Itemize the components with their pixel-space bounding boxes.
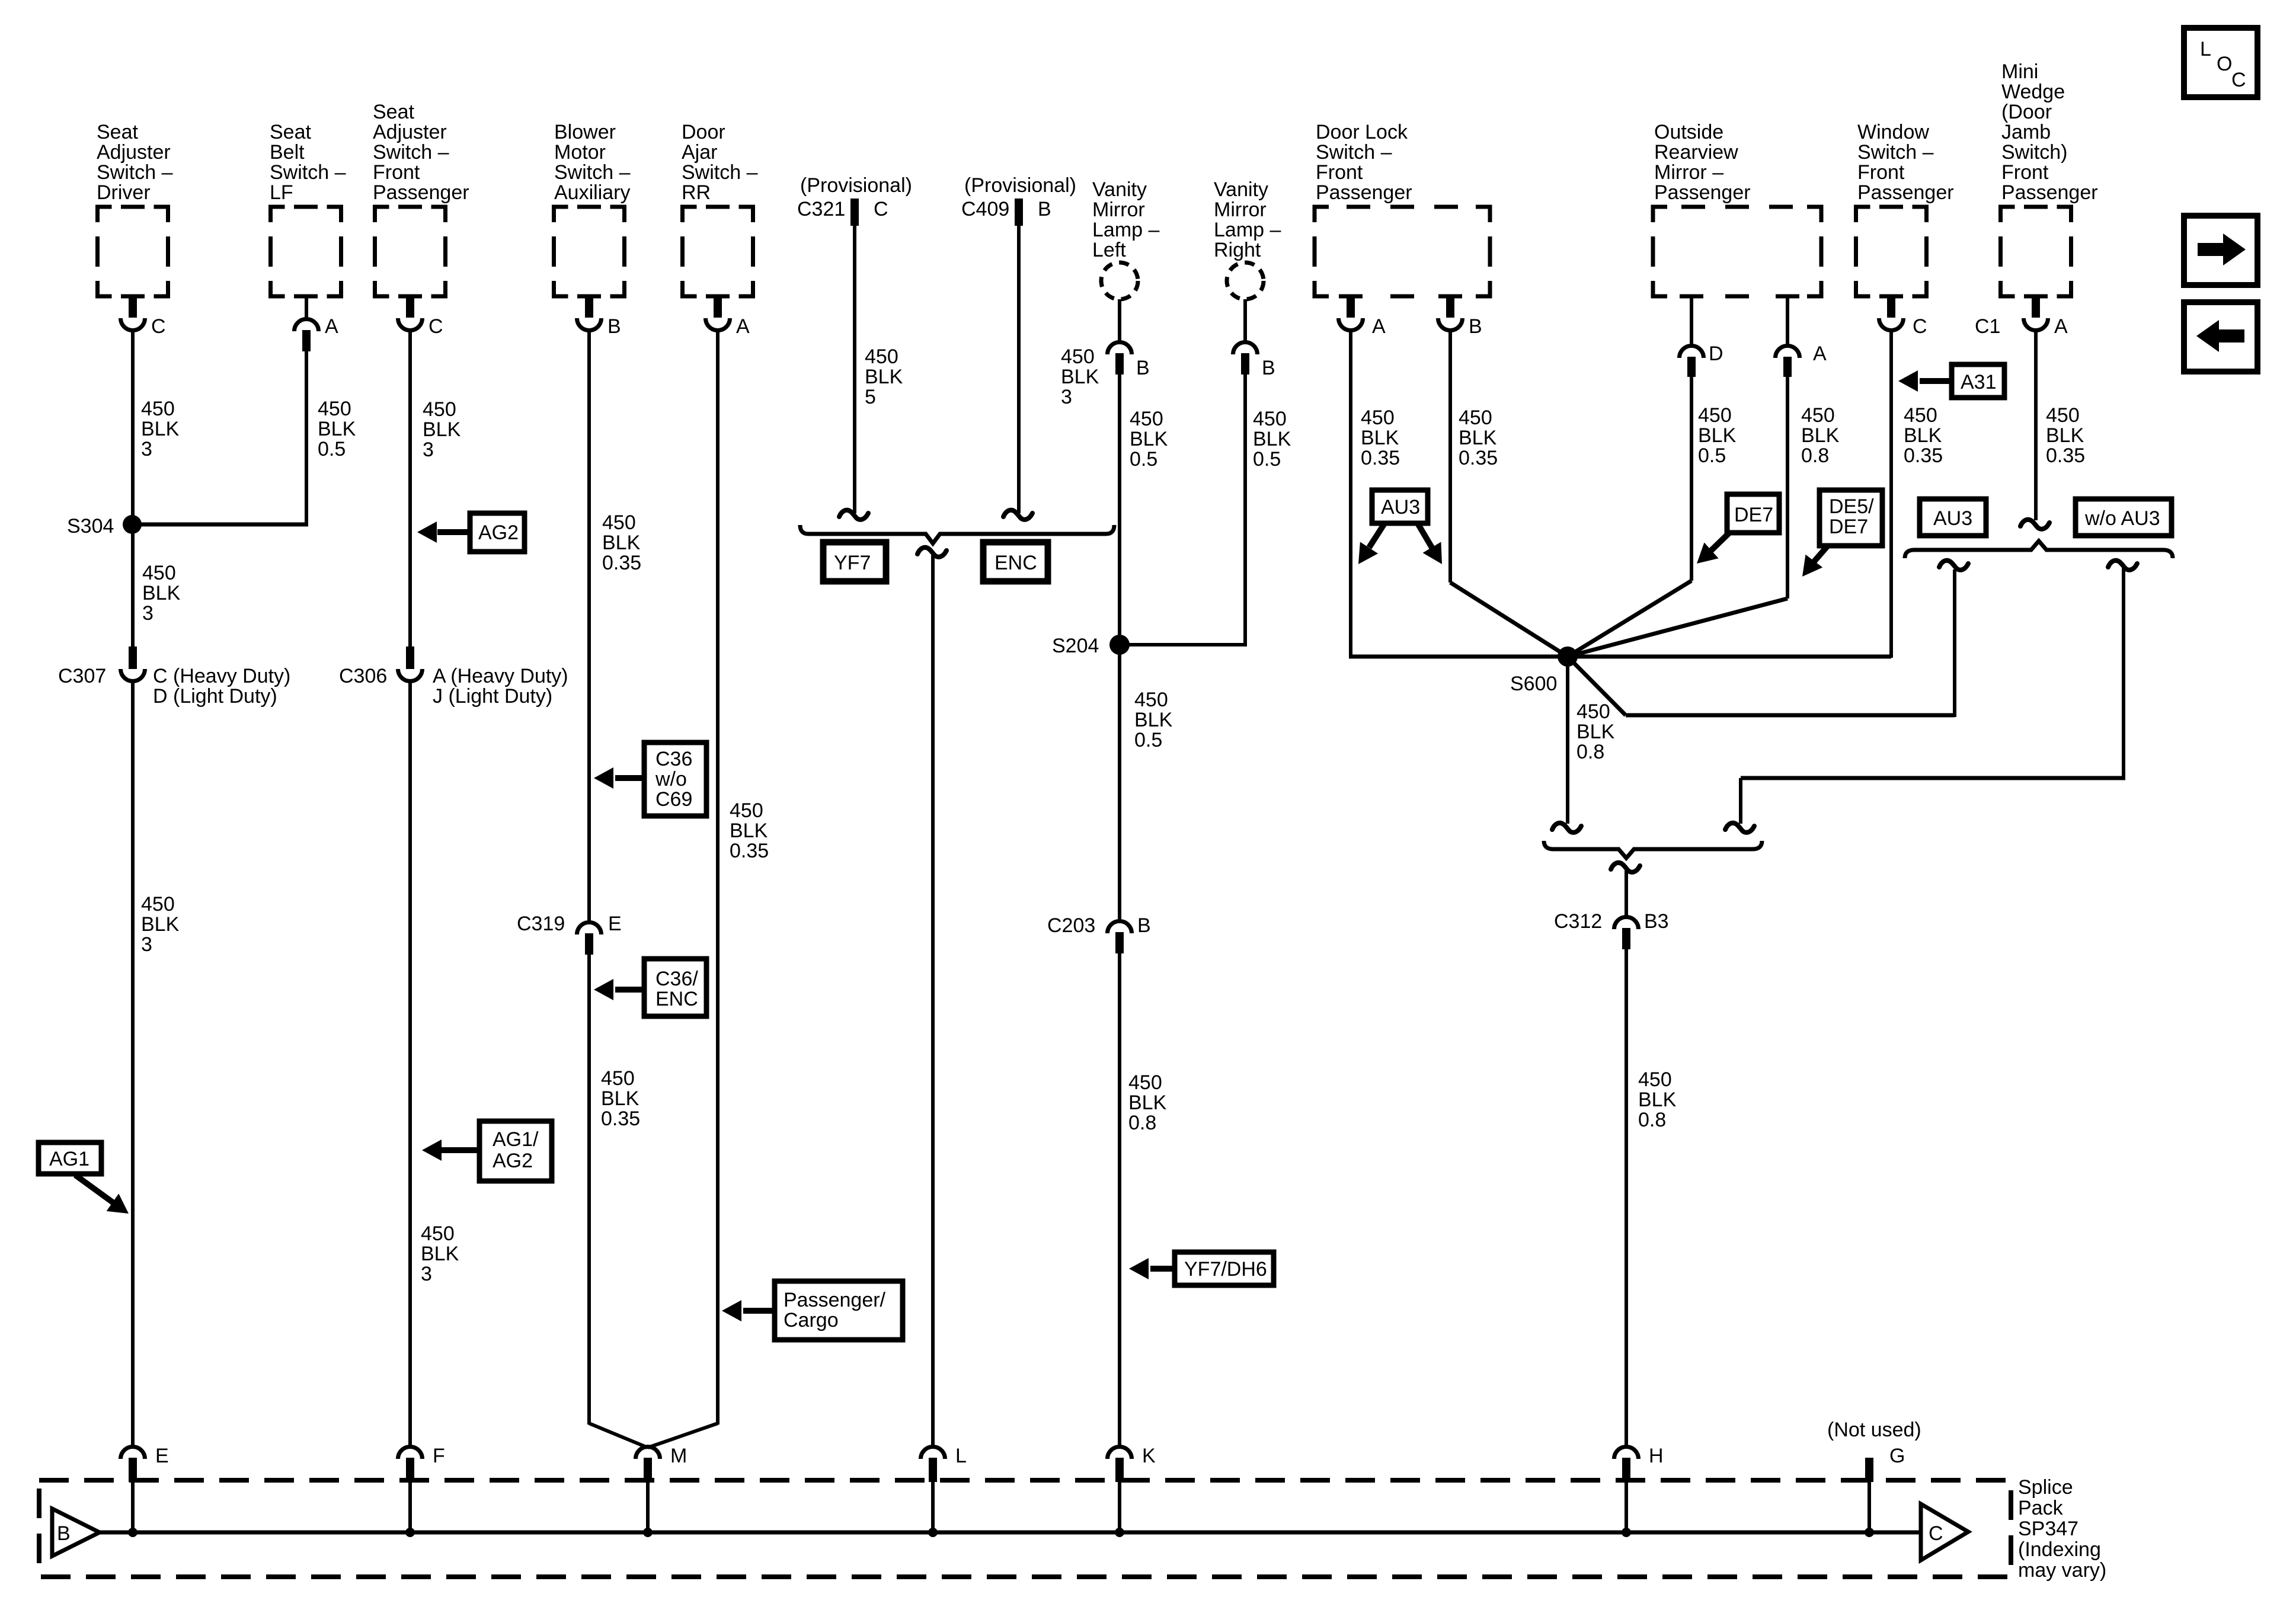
wire 450 BLK 0.5 seat belt xyxy=(136,351,308,526)
connector pin B of Blower Motor Switch xyxy=(577,295,621,338)
svg-text:Passenger: Passenger xyxy=(1654,181,1751,204)
option arrow A31 xyxy=(1898,364,2004,398)
svg-text:3: 3 xyxy=(421,1263,432,1285)
svg-text:3: 3 xyxy=(141,438,152,460)
wire 450 BLK 0.35 window switch to S600 line xyxy=(1889,330,1893,658)
svg-text:A (Heavy Duty): A (Heavy Duty) xyxy=(433,665,568,687)
connector F at splice pack xyxy=(398,1445,445,1532)
svg-text:Passenger: Passenger xyxy=(373,181,469,204)
svg-text:Passenger: Passenger xyxy=(1857,181,1954,204)
wire 450 BLK 5 from C321 xyxy=(853,226,856,513)
svg-text:450: 450 xyxy=(421,1222,455,1245)
connector M at splice pack xyxy=(636,1445,687,1532)
svg-text:Pack: Pack xyxy=(2018,1497,2064,1519)
wire 450 BLK 0.8 S600 down to C312 merge xyxy=(1566,657,1569,824)
svg-text:Front: Front xyxy=(1316,161,1363,184)
svg-text:450: 450 xyxy=(141,893,175,916)
svg-text:Switch –: Switch – xyxy=(1316,141,1392,164)
component Seat Belt Switch - LF xyxy=(270,121,346,296)
junction dot F xyxy=(405,1528,415,1537)
svg-text:DE7: DE7 xyxy=(1734,504,1773,526)
svg-text:Switch –: Switch – xyxy=(554,161,631,184)
svg-text:3: 3 xyxy=(423,438,434,461)
svg-text:Blower: Blower xyxy=(554,121,616,143)
wire from merge to connector C312 xyxy=(1625,870,1628,918)
connector pin C of Window Switch xyxy=(1879,295,1927,338)
svg-text:C (Heavy Duty): C (Heavy Duty) xyxy=(153,665,290,687)
svg-text:Window: Window xyxy=(1857,121,1929,143)
svg-text:450: 450 xyxy=(1134,689,1168,711)
svg-text:B: B xyxy=(1137,914,1151,937)
svg-text:BLK: BLK xyxy=(602,532,641,554)
wire break below AU3 brace left xyxy=(1939,561,1968,570)
wire 450 BLK 0.5 vanity right xyxy=(1120,375,1245,646)
svg-text:C: C xyxy=(428,315,443,338)
svg-text:B: B xyxy=(1136,357,1150,379)
svg-text:B: B xyxy=(607,315,621,338)
svg-text:BLK: BLK xyxy=(601,1087,639,1110)
splice pack SP347 dashed boundary xyxy=(39,1480,2011,1577)
svg-text:DE7: DE7 xyxy=(1829,516,1868,538)
svg-text:L: L xyxy=(2200,38,2211,60)
svg-text:3: 3 xyxy=(141,933,152,956)
svg-text:450: 450 xyxy=(1361,406,1395,429)
svg-text:Lamp –: Lamp – xyxy=(1214,219,1281,241)
svg-text:B3: B3 xyxy=(1644,910,1669,933)
svg-text:C1: C1 xyxy=(1975,315,2000,338)
svg-text:B: B xyxy=(1038,198,1051,220)
svg-text:w/o AU3: w/o AU3 xyxy=(2084,507,2160,530)
svg-text:Adjuster: Adjuster xyxy=(373,121,447,143)
svg-text:A: A xyxy=(2054,315,2068,338)
svg-text:C: C xyxy=(2231,69,2246,91)
svg-text:Belt: Belt xyxy=(270,141,305,164)
wire break above YF7 brace right xyxy=(1003,510,1032,520)
svg-text:BLK: BLK xyxy=(1459,427,1497,449)
svg-text:Front: Front xyxy=(1857,161,1905,184)
svg-text:(Indexing: (Indexing xyxy=(2018,1538,2101,1561)
connector pin D of Outside Rearview Mirror xyxy=(1680,296,1723,377)
junction dot G xyxy=(1865,1528,1874,1537)
svg-text:AG2: AG2 xyxy=(478,521,519,544)
option arrow C36 w/o C69 xyxy=(594,742,706,816)
svg-text:0.8: 0.8 xyxy=(1638,1109,1666,1131)
wire 450 BLK 3 driver segment 1 xyxy=(131,330,135,526)
option arrow YF7/DH6 xyxy=(1129,1252,1274,1285)
connector pin A of Door Ajar Switch xyxy=(706,295,750,338)
svg-text:H: H xyxy=(1649,1445,1664,1467)
svg-text:Ajar: Ajar xyxy=(682,141,717,164)
svg-text:BLK: BLK xyxy=(1253,428,1291,450)
wire 450 BLK 3 driver segment 2 xyxy=(131,524,135,648)
svg-text:(Not used): (Not used) xyxy=(1827,1419,1921,1441)
svg-text:0.8: 0.8 xyxy=(1576,741,1604,763)
component Vanity Mirror Lamp - Right xyxy=(1214,178,1281,299)
svg-text:(Provisional): (Provisional) xyxy=(964,174,1076,197)
svg-text:B: B xyxy=(57,1522,71,1545)
svg-text:C319: C319 xyxy=(517,913,565,935)
svg-text:S304: S304 xyxy=(67,515,114,537)
svg-text:450: 450 xyxy=(2046,404,2080,427)
svg-text:B: B xyxy=(1262,357,1275,379)
svg-text:D: D xyxy=(1709,343,1723,365)
connector C307 xyxy=(58,646,290,708)
svg-text:Switch –: Switch – xyxy=(1857,141,1934,164)
wire S600 right horizontal to window switch wire xyxy=(1568,655,1891,659)
brace split AU3 / w/o AU3 xyxy=(1905,541,2173,558)
svg-text:SP347: SP347 xyxy=(2018,1518,2078,1540)
svg-text:Mini: Mini xyxy=(2001,60,2038,83)
svg-text:Left: Left xyxy=(1092,239,1126,261)
svg-text:Right: Right xyxy=(1214,239,1261,261)
connector pin C1 A of Mini Wedge xyxy=(1975,295,2068,338)
svg-text:0.8: 0.8 xyxy=(1128,1112,1156,1134)
svg-text:0.5: 0.5 xyxy=(1253,448,1281,470)
svg-text:Passenger/: Passenger/ xyxy=(784,1289,886,1311)
component Blower Motor Switch - Auxiliary xyxy=(554,121,631,296)
brace merge above C312 xyxy=(1544,841,1762,858)
svg-text:C: C xyxy=(151,315,166,338)
connector pin B of Vanity Mirror Lamp - Left xyxy=(1108,299,1150,379)
option arrow AG1/AG2 xyxy=(422,1121,552,1181)
svg-text:BLK: BLK xyxy=(865,366,903,388)
legend left arrow box xyxy=(2184,302,2257,372)
svg-text:(Door: (Door xyxy=(2001,101,2052,123)
svg-text:C: C xyxy=(1929,1522,1943,1545)
svg-text:Vanity: Vanity xyxy=(1092,178,1147,201)
wire 450 BLK 0.8 below C203 to splice pack K xyxy=(1118,953,1121,1448)
terminal triangle C xyxy=(1921,1504,1968,1560)
svg-text:Jamb: Jamb xyxy=(2001,121,2051,143)
svg-text:Auxiliary: Auxiliary xyxy=(554,181,630,204)
svg-text:AU3: AU3 xyxy=(1381,496,1420,518)
svg-text:0.35: 0.35 xyxy=(1361,447,1400,469)
junction dot M xyxy=(643,1528,653,1537)
option tag w/o AU3 above brace xyxy=(2076,499,2172,536)
svg-text:450: 450 xyxy=(1061,345,1095,368)
svg-text:LF: LF xyxy=(270,181,293,204)
wire break below YF7 brace xyxy=(917,548,946,557)
svg-text:A: A xyxy=(1372,315,1386,338)
wire 450 BLK 0.35 blower segment 2 xyxy=(587,955,591,1425)
svg-text:Passenger: Passenger xyxy=(2001,181,2098,204)
svg-text:Passenger: Passenger xyxy=(1316,181,1412,204)
svg-text:0.35: 0.35 xyxy=(602,552,641,574)
svg-text:ENC: ENC xyxy=(655,988,698,1010)
svg-text:BLK: BLK xyxy=(141,418,180,440)
svg-text:Switch –: Switch – xyxy=(97,161,173,184)
svg-text:450: 450 xyxy=(730,799,763,822)
svg-text:B: B xyxy=(1469,315,1482,338)
legend right arrow box xyxy=(2184,216,2257,285)
option tag YF7 xyxy=(823,542,886,581)
component Outside Rearview Mirror - Passenger xyxy=(1653,121,1821,296)
svg-text:AG1: AG1 xyxy=(49,1148,89,1170)
svg-text:S204: S204 xyxy=(1052,635,1099,657)
svg-text:BLK: BLK xyxy=(730,820,768,842)
connector C321 (Provisional) pin C xyxy=(797,174,912,226)
svg-text:450: 450 xyxy=(602,511,636,534)
junction dot E xyxy=(128,1528,137,1537)
wire 450 BLK 0.5 below S204 xyxy=(1118,645,1121,922)
option arrow AG1 with diagonal arrow xyxy=(39,1142,135,1222)
svg-text:Mirror: Mirror xyxy=(1092,199,1145,221)
option tag AU3 with two arrows to door lock wires xyxy=(1350,490,1451,570)
option arrow Passenger/Cargo xyxy=(722,1281,903,1340)
svg-text:BLK: BLK xyxy=(2046,424,2084,447)
svg-text:M: M xyxy=(670,1445,687,1467)
wire 450 BLK 0.8 mirror A to S600 xyxy=(1568,376,1787,657)
splice S600 xyxy=(1510,646,1578,695)
svg-text:C307: C307 xyxy=(58,665,106,687)
svg-text:0.5: 0.5 xyxy=(318,438,346,460)
svg-text:Wedge: Wedge xyxy=(2001,81,2065,103)
connector pin B of Door Lock Switch xyxy=(1438,295,1482,338)
svg-text:Rearview: Rearview xyxy=(1654,141,1738,164)
component Seat Adjuster Switch - Front Passenger xyxy=(373,101,469,296)
svg-text:0.35: 0.35 xyxy=(601,1108,640,1130)
svg-text:C312: C312 xyxy=(1554,910,1602,933)
svg-text:Driver: Driver xyxy=(97,181,151,204)
svg-text:O: O xyxy=(2217,53,2232,75)
wire break above YF7 brace left xyxy=(839,510,868,520)
connector pin A of Door Lock Switch xyxy=(1339,295,1386,338)
component Door Ajar Switch - RR xyxy=(682,121,758,296)
option arrow AG2 xyxy=(417,513,525,552)
option tag AU3 above brace xyxy=(1920,499,1986,536)
svg-text:BLK: BLK xyxy=(1361,427,1399,449)
connector C319 xyxy=(517,913,622,955)
svg-text:L: L xyxy=(955,1445,967,1467)
svg-text:S600: S600 xyxy=(1510,673,1557,695)
svg-text:5: 5 xyxy=(865,386,876,408)
svg-text:DE5/: DE5/ xyxy=(1829,495,1874,518)
svg-text:C321: C321 xyxy=(797,198,845,220)
connector E at splice pack xyxy=(121,1445,169,1532)
svg-text:BLK: BLK xyxy=(1061,366,1099,388)
svg-text:E: E xyxy=(155,1445,169,1467)
svg-text:450: 450 xyxy=(1128,1071,1162,1094)
svg-text:Mirror –: Mirror – xyxy=(1654,161,1723,184)
svg-text:D (Light Duty): D (Light Duty) xyxy=(153,685,277,708)
svg-text:A31: A31 xyxy=(1961,371,1997,393)
wire break above AU3 brace xyxy=(2020,520,2049,529)
svg-text:BLK: BLK xyxy=(1134,709,1173,731)
svg-text:YF7: YF7 xyxy=(834,552,871,574)
svg-text:BLK: BLK xyxy=(421,1243,459,1265)
splice pack bus wire B to C xyxy=(99,1531,1921,1535)
svg-text:BLK: BLK xyxy=(1698,424,1737,447)
connector L at splice pack xyxy=(921,1445,967,1532)
svg-text:0.35: 0.35 xyxy=(730,840,769,862)
svg-text:BLK: BLK xyxy=(423,418,461,441)
svg-text:450: 450 xyxy=(1253,408,1287,430)
svg-text:0.35: 0.35 xyxy=(2046,444,2085,467)
connector pin A of Seat Belt Switch - LF xyxy=(295,296,339,351)
wire break below C312 brace xyxy=(1611,863,1640,872)
svg-text:A: A xyxy=(1813,343,1827,365)
svg-text:C36: C36 xyxy=(655,748,692,770)
wire 450 BLK 0.5 vanity left xyxy=(1118,375,1121,646)
connector pin C of Seat Adjuster Switch - Driver xyxy=(121,295,166,338)
svg-text:0.5: 0.5 xyxy=(1130,448,1157,470)
wire 450 BLK 0.35 door lock A to S600 xyxy=(1349,330,1568,657)
terminal triangle B xyxy=(52,1509,100,1556)
svg-text:450: 450 xyxy=(601,1067,635,1090)
svg-text:C409: C409 xyxy=(961,198,1009,220)
svg-text:E: E xyxy=(608,913,622,935)
brace merge YF7/ENC xyxy=(800,525,1114,543)
svg-text:450: 450 xyxy=(141,398,175,420)
svg-text:450: 450 xyxy=(1638,1068,1672,1091)
svg-text:Seat: Seat xyxy=(97,121,138,143)
svg-text:C306: C306 xyxy=(339,665,387,687)
wire S600 to AU3 branch left xyxy=(1568,569,1955,717)
svg-text:G: G xyxy=(1889,1445,1905,1467)
svg-text:AG1/: AG1/ xyxy=(493,1128,539,1151)
svg-text:ENC: ENC xyxy=(994,552,1037,574)
wire 450 BLK 0.8 below C312 to splice pack H xyxy=(1625,949,1628,1448)
svg-text:Mirror: Mirror xyxy=(1214,199,1267,221)
svg-text:3: 3 xyxy=(1061,386,1072,408)
connector K at splice pack xyxy=(1108,1445,1156,1532)
component Mini Wedge (Door Jamb Switch) Front Passenger xyxy=(2001,60,2098,296)
component Window Switch - Front Passenger xyxy=(1856,121,1954,296)
connector C409 (Provisional) pin B xyxy=(961,174,1076,226)
wire V merge of blower and door ajar wires into M xyxy=(589,1423,718,1448)
connector pin B of Vanity Mirror Lamp - Right xyxy=(1233,299,1275,379)
svg-text:450: 450 xyxy=(1801,404,1835,427)
svg-text:Switch –: Switch – xyxy=(373,141,449,164)
wire w/o AU3 branch to C312 merge right xyxy=(1741,568,2125,824)
connector C312 xyxy=(1554,910,1669,949)
svg-text:A: A xyxy=(736,315,750,338)
svg-text:BLK: BLK xyxy=(1638,1089,1677,1111)
component Vanity Mirror Lamp - Left xyxy=(1092,178,1159,299)
svg-text:Front: Front xyxy=(373,161,420,184)
svg-text:Splice: Splice xyxy=(2018,1476,2073,1499)
svg-text:450: 450 xyxy=(423,398,456,421)
svg-text:F: F xyxy=(433,1445,445,1467)
svg-text:RR: RR xyxy=(682,181,711,204)
splice S304 xyxy=(67,515,142,537)
svg-text:(Provisional): (Provisional) xyxy=(800,174,912,197)
junction dot H xyxy=(1622,1528,1631,1537)
svg-text:BLK: BLK xyxy=(142,582,181,604)
svg-text:YF7/DH6: YF7/DH6 xyxy=(1184,1258,1267,1281)
connector C203 xyxy=(1047,914,1151,953)
svg-text:Cargo: Cargo xyxy=(784,1309,839,1331)
connector pin C of Seat Adjuster Switch - Front Passenger xyxy=(398,295,443,338)
connector G (Not used) at splice pack xyxy=(1827,1419,1921,1532)
component Door Lock Switch - Front Passenger xyxy=(1315,121,1490,296)
svg-text:450: 450 xyxy=(1698,404,1732,427)
svg-text:450: 450 xyxy=(1904,404,1937,427)
svg-text:Front: Front xyxy=(2001,161,2049,184)
wire break above C312 brace right xyxy=(1725,823,1754,833)
svg-text:450: 450 xyxy=(1576,700,1610,723)
svg-text:BLK: BLK xyxy=(318,418,356,440)
svg-text:C36/: C36/ xyxy=(655,968,698,990)
svg-text:may vary): may vary) xyxy=(2018,1559,2106,1582)
svg-text:Outside: Outside xyxy=(1654,121,1723,143)
option tag ENC xyxy=(983,542,1048,581)
svg-text:Lamp –: Lamp – xyxy=(1092,219,1159,241)
wire 450 BLK 0.35 door lock B to S600 xyxy=(1450,330,1568,657)
svg-text:C69: C69 xyxy=(655,788,692,811)
svg-text:BLK: BLK xyxy=(1576,721,1615,743)
connector pin A of Outside Rearview Mirror xyxy=(1776,296,1827,377)
option arrow DE7 xyxy=(1690,494,1779,571)
svg-text:Switch –: Switch – xyxy=(270,161,346,184)
svg-text:Switch –: Switch – xyxy=(682,161,758,184)
svg-text:AU3: AU3 xyxy=(1933,507,1972,530)
svg-text:450: 450 xyxy=(865,345,898,368)
svg-text:Door: Door xyxy=(682,121,725,143)
wire 450 BLK 0.5 mirror D to S600 xyxy=(1568,376,1691,657)
svg-text:0.35: 0.35 xyxy=(1904,444,1943,467)
svg-text:3: 3 xyxy=(142,602,154,625)
wire 450 BLK 0.35 blower segment 1 xyxy=(587,330,591,923)
svg-text:Seat: Seat xyxy=(270,121,311,143)
svg-text:450: 450 xyxy=(1459,406,1492,429)
svg-text:0.5: 0.5 xyxy=(1698,444,1726,467)
svg-text:0.35: 0.35 xyxy=(1459,447,1498,469)
svg-text:BLK: BLK xyxy=(1130,428,1168,450)
component Seat Adjuster Switch - Driver xyxy=(97,121,173,296)
svg-text:Door Lock: Door Lock xyxy=(1316,121,1408,143)
wire 450 BLK 3 front passenger segment 1 xyxy=(408,330,412,648)
svg-text:450: 450 xyxy=(318,398,351,420)
option arrow C36/ENC xyxy=(594,959,706,1016)
junction dot L xyxy=(928,1528,938,1537)
svg-text:450: 450 xyxy=(142,562,176,584)
svg-text:J (Light Duty): J (Light Duty) xyxy=(433,685,552,708)
svg-text:BLK: BLK xyxy=(1801,424,1840,447)
wire break below AU3 brace right xyxy=(2108,561,2137,570)
wire 450 BLK 3 driver segment 3 xyxy=(131,681,135,1448)
svg-text:AG2: AG2 xyxy=(493,1150,533,1172)
svg-text:BLK: BLK xyxy=(141,913,180,936)
svg-text:450: 450 xyxy=(1130,408,1163,430)
svg-text:BLK: BLK xyxy=(1128,1092,1167,1114)
option arrow DE5/DE7 xyxy=(1794,490,1882,583)
svg-text:K: K xyxy=(1142,1445,1156,1467)
wire from YF7/ENC merge down to splice pack L xyxy=(931,555,935,1448)
svg-text:Seat: Seat xyxy=(373,101,414,123)
connector C306 xyxy=(339,646,568,708)
svg-text:C: C xyxy=(1913,315,1927,338)
connector H at splice pack xyxy=(1614,1445,1664,1532)
svg-text:A: A xyxy=(325,315,338,338)
wire 450 BLK 3 from C409 xyxy=(1017,226,1021,513)
wire break above C312 brace left xyxy=(1552,823,1581,833)
splice S204 xyxy=(1052,635,1130,657)
svg-text:C203: C203 xyxy=(1047,914,1095,937)
svg-text:Motor: Motor xyxy=(554,141,606,164)
svg-text:C: C xyxy=(874,198,888,220)
splice pack label xyxy=(2018,1476,2106,1582)
wire 450 BLK 0.35 mini wedge down to AU3 brace xyxy=(2034,330,2038,520)
svg-text:w/o: w/o xyxy=(655,768,687,790)
wire 450 BLK 3 front passenger segment 2 xyxy=(408,681,412,1448)
junction dot K xyxy=(1115,1528,1124,1537)
wire 450 BLK 0.35 door ajar xyxy=(716,330,720,1425)
svg-text:Vanity: Vanity xyxy=(1214,178,1268,201)
svg-text:Adjuster: Adjuster xyxy=(97,141,171,164)
svg-text:BLK: BLK xyxy=(1904,424,1942,447)
svg-text:0.8: 0.8 xyxy=(1801,444,1829,467)
